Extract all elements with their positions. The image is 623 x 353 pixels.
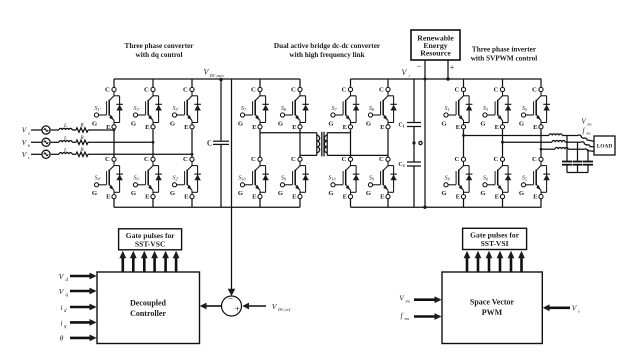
svg-text:ms: ms bbox=[588, 123, 593, 127]
svg-text:with SVPWM control: with SVPWM control bbox=[471, 55, 538, 63]
node capacitor midpoint bbox=[412, 141, 415, 144]
transistor S6 bbox=[480, 156, 511, 201]
svg-text:S7: S7 bbox=[241, 106, 247, 112]
svg-text:Resource: Resource bbox=[420, 49, 451, 58]
filter capacitor 2 bbox=[577, 142, 579, 161]
transistor S6' bbox=[131, 156, 162, 201]
transistor S7 (DAB right) bbox=[328, 86, 359, 131]
svg-text:V: V bbox=[399, 294, 405, 303]
svg-text:C1: C1 bbox=[398, 123, 404, 129]
inverter leg stubs top bbox=[463, 79, 465, 87]
gate arrow 12 bbox=[520, 258, 523, 272]
svg-text:S10: S10 bbox=[238, 176, 246, 182]
wire primary top lead bbox=[260, 132, 317, 134]
svg-text:f: f bbox=[400, 311, 403, 320]
transistor S2' bbox=[170, 156, 201, 201]
transistor S10 (DAB right) bbox=[328, 156, 359, 201]
transistor S1 bbox=[441, 86, 472, 131]
svg-text:S1: S1 bbox=[444, 106, 449, 112]
svg-text:S3′: S3′ bbox=[133, 106, 139, 112]
svg-text:V: V bbox=[22, 126, 28, 135]
svg-text:q: q bbox=[66, 293, 69, 298]
wire phase c bbox=[88, 153, 192, 155]
gate arrow 3 bbox=[143, 258, 146, 272]
svg-text:Three phase inverter: Three phase inverter bbox=[472, 46, 537, 54]
filter capacitor 3 bbox=[587, 149, 589, 161]
svg-text:S1′: S1′ bbox=[94, 106, 100, 112]
svg-text:Gate pulses for: Gate pulses for bbox=[126, 231, 176, 240]
svg-text:S8: S8 bbox=[369, 106, 375, 112]
svg-text:S4′: S4′ bbox=[94, 176, 100, 182]
svg-text:a: a bbox=[28, 131, 30, 136]
svg-text:V: V bbox=[22, 150, 28, 159]
transistor S8 (DAB right) bbox=[366, 86, 397, 131]
svg-text:ms: ms bbox=[587, 132, 592, 136]
transistor S9 (DAB right) bbox=[366, 156, 397, 201]
svg-text:q: q bbox=[64, 324, 67, 329]
svg-text:R: R bbox=[79, 135, 84, 141]
wire secondary top lead bbox=[327, 132, 350, 134]
svg-text:S4: S4 bbox=[444, 176, 449, 182]
transistor S5 bbox=[519, 86, 550, 131]
filter inductor phase 3 bbox=[555, 148, 568, 150]
capacitor C1 bbox=[413, 79, 415, 122]
DAB right leg mid wires bbox=[350, 129, 352, 157]
svg-text:d: d bbox=[66, 278, 69, 283]
wire inverter phase 1 bbox=[464, 135, 550, 137]
terminal midpoint bbox=[419, 141, 422, 144]
svg-text:Decoupled: Decoupled bbox=[130, 299, 167, 308]
svg-text:Gate pulses for: Gate pulses for bbox=[470, 230, 520, 239]
svg-text:d: d bbox=[64, 309, 67, 314]
filter common rail bbox=[567, 172, 588, 174]
svg-text:V: V bbox=[572, 304, 578, 313]
Space Vector PWM box bbox=[442, 272, 542, 344]
DAB right bridge stubs bbox=[350, 79, 352, 87]
leg mid wires bbox=[113, 129, 115, 157]
svg-text:C2: C2 bbox=[398, 162, 404, 168]
svg-text:i: i bbox=[60, 318, 62, 327]
filter capacitor 1 bbox=[566, 136, 568, 161]
gate arrow 10 bbox=[499, 258, 502, 272]
node plus lead to bus bbox=[446, 77, 450, 81]
svg-text:S7: S7 bbox=[331, 106, 337, 112]
svg-text:θ: θ bbox=[60, 334, 64, 343]
renewable plus lead bbox=[447, 60, 449, 79]
svg-text:SST-VSC: SST-VSC bbox=[135, 240, 166, 249]
svg-text:DC,ref: DC,ref bbox=[277, 307, 291, 313]
summing junction bbox=[222, 296, 242, 316]
transistor S7 (DAB left) bbox=[238, 86, 269, 131]
wire inverter phase 2 bbox=[503, 141, 553, 143]
inverter leg mid wires bbox=[463, 129, 465, 157]
svg-text:R: R bbox=[79, 147, 84, 153]
DAB left bridge stubs bbox=[259, 79, 261, 87]
wire secondary bottom lead bbox=[327, 154, 388, 156]
svg-text:Space Vector: Space Vector bbox=[470, 298, 515, 307]
DC link capacitor C bbox=[220, 79, 222, 141]
filter inductor phase 1 bbox=[549, 134, 562, 136]
renewable minus lead / Vi line bbox=[424, 60, 426, 207]
bottom DC bus (secondary side) bbox=[351, 206, 542, 208]
gate arrow 11 bbox=[510, 258, 513, 272]
wire summing to controller bbox=[206, 305, 222, 307]
node DC bus tap bbox=[219, 78, 222, 81]
wire inverter phase 3 bbox=[541, 148, 555, 150]
svg-text:S6′: S6′ bbox=[133, 176, 139, 182]
svg-text:V: V bbox=[59, 287, 65, 296]
DAB left bottom stubs bbox=[259, 199, 261, 208]
svg-text:ms: ms bbox=[405, 316, 410, 321]
gate arrow 7 bbox=[466, 258, 469, 272]
transformer core bbox=[321, 132, 323, 157]
svg-text:c: c bbox=[28, 155, 30, 160]
transistor S4' bbox=[92, 156, 123, 201]
node minus lead to bus bbox=[424, 78, 427, 81]
svg-text:−: − bbox=[416, 61, 421, 71]
converter leg stubs bottom bbox=[113, 199, 115, 208]
transistor S8 (DAB left) bbox=[278, 86, 309, 131]
svg-text:s: s bbox=[578, 309, 580, 314]
gate arrow 5 bbox=[164, 258, 167, 272]
svg-text:+: + bbox=[450, 62, 455, 72]
DAB left leg mid wires bbox=[259, 129, 261, 157]
svg-text:S2: S2 bbox=[522, 176, 527, 182]
capacitor C2 bbox=[407, 161, 421, 163]
DAB right bottom stubs bbox=[350, 199, 352, 208]
wire phase a bbox=[88, 129, 114, 131]
svg-text:V: V bbox=[59, 272, 65, 281]
svg-text:S6: S6 bbox=[483, 176, 489, 182]
svg-text:b: b bbox=[28, 143, 30, 148]
svg-text:V: V bbox=[22, 138, 28, 147]
svg-text:−: − bbox=[228, 295, 233, 305]
svg-text:S5′: S5′ bbox=[172, 106, 178, 112]
transistor S3' bbox=[131, 86, 162, 131]
svg-text:C: C bbox=[207, 140, 212, 147]
transformer primary winding bbox=[316, 133, 318, 156]
converter leg stubs top bbox=[113, 79, 115, 87]
transistor S5' bbox=[170, 86, 201, 131]
gate arrow 4 bbox=[153, 258, 156, 272]
transistor S1' bbox=[92, 86, 123, 131]
svg-text:PWM: PWM bbox=[482, 308, 503, 317]
svg-text:S10: S10 bbox=[328, 176, 336, 182]
svg-text:V: V bbox=[581, 118, 586, 126]
gate arrow 6 bbox=[175, 258, 178, 272]
svg-text:i: i bbox=[409, 73, 411, 78]
svg-text:Dual active bridge dc-dc conve: Dual active bridge dc-dc converter bbox=[274, 42, 381, 50]
gate arrow 1 bbox=[122, 258, 125, 272]
gate pulses box SST-VSI bbox=[463, 228, 527, 249]
svg-text:S9: S9 bbox=[369, 176, 375, 182]
svg-text:ms: ms bbox=[406, 299, 411, 304]
svg-text:S8: S8 bbox=[281, 106, 287, 112]
svg-text:S9: S9 bbox=[281, 176, 287, 182]
svg-text:V: V bbox=[272, 302, 278, 311]
svg-text:S5: S5 bbox=[522, 106, 527, 112]
svg-text:R: R bbox=[79, 123, 84, 129]
VDC sense wire bbox=[231, 79, 233, 291]
svg-text:S3: S3 bbox=[483, 106, 488, 112]
top DC bus (secondary side) bbox=[351, 78, 542, 80]
top DC bus bbox=[114, 78, 300, 80]
gate arrow 8 bbox=[477, 258, 480, 272]
transistor S3 bbox=[480, 86, 511, 131]
svg-text:Controller: Controller bbox=[130, 309, 166, 318]
wire phase b bbox=[88, 141, 153, 143]
input VDC,ref bbox=[249, 305, 267, 307]
svg-text:f: f bbox=[583, 127, 586, 135]
transformer secondary winding bbox=[326, 133, 328, 156]
svg-text:LOAD: LOAD bbox=[597, 144, 613, 150]
node Vi line to bottom bus bbox=[423, 206, 426, 209]
gate arrow 9 bbox=[488, 258, 491, 272]
gate pulses box SST-VSC bbox=[119, 229, 182, 250]
wire primary bottom lead bbox=[300, 154, 317, 156]
transistor S9 (DAB left) bbox=[278, 156, 309, 201]
svg-text:i: i bbox=[60, 303, 62, 312]
node phase b bbox=[152, 141, 155, 144]
transistor S2 bbox=[519, 156, 550, 201]
svg-text:V: V bbox=[402, 68, 408, 77]
svg-text:S2′: S2′ bbox=[172, 176, 178, 182]
svg-text:with dq control: with dq control bbox=[136, 51, 183, 59]
svg-text:+: + bbox=[235, 305, 240, 315]
transistor S4 bbox=[441, 156, 472, 201]
LOAD box bbox=[594, 136, 615, 155]
svg-text:SST-VSI: SST-VSI bbox=[481, 239, 509, 248]
node phase c bbox=[191, 153, 194, 156]
gate arrow 2 bbox=[132, 258, 135, 272]
node phase a bbox=[113, 129, 116, 132]
filter inductor phase 2 bbox=[552, 141, 565, 143]
bottom DC bus bbox=[114, 206, 300, 208]
transistor S10 (DAB left) bbox=[238, 156, 269, 201]
svg-text:Three phase converter: Three phase converter bbox=[125, 42, 195, 50]
inverter bottom stubs bbox=[463, 199, 465, 208]
Renewable Energy Resource box bbox=[411, 30, 460, 60]
Decoupled Controller box bbox=[97, 272, 200, 344]
svg-text:with high frequency link: with high frequency link bbox=[289, 51, 364, 59]
